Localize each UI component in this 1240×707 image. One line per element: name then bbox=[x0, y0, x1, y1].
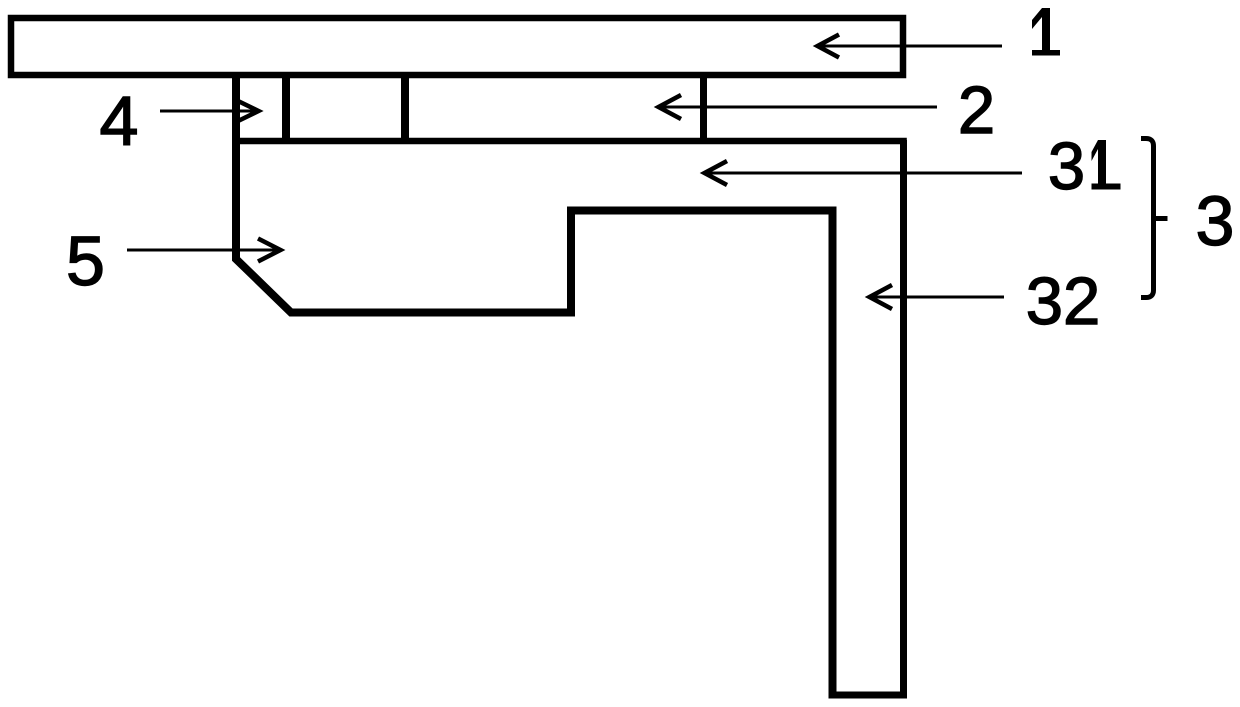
svg-text:3: 3 bbox=[1196, 182, 1235, 260]
svg-text:5: 5 bbox=[66, 222, 105, 300]
svg-text:4: 4 bbox=[100, 82, 139, 160]
svg-text:2: 2 bbox=[958, 73, 995, 148]
svg-text:32: 32 bbox=[1026, 264, 1101, 339]
svg-text:3: 3 bbox=[1048, 129, 1085, 204]
